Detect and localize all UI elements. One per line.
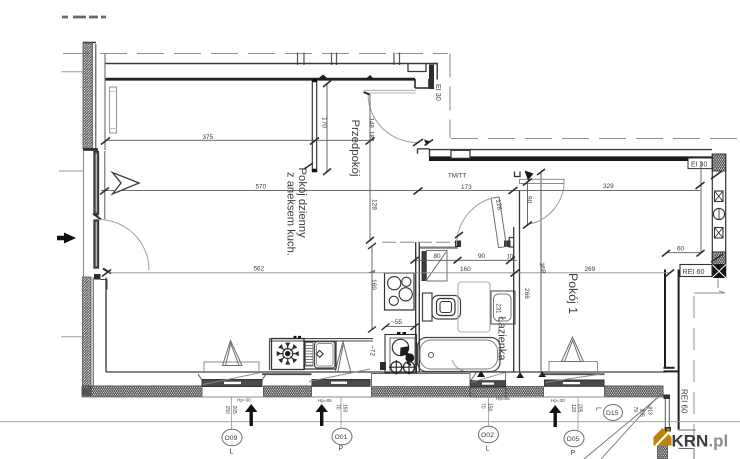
baseline under plan	[0, 421, 740, 423]
vanity / shower unit	[458, 282, 490, 332]
north-east outer wall	[418, 140, 713, 176]
hall / living room partition wall	[304, 80, 317, 172]
svg-text:375: 375	[203, 134, 214, 141]
svg-text:~55: ~55	[391, 319, 402, 326]
door stop symbol (u)	[515, 172, 521, 177]
washbasin	[491, 291, 515, 324]
svg-text:60: 60	[677, 246, 685, 253]
svg-text:813: 813	[647, 407, 653, 416]
dim chain y=190.5 (570 / 173 / 329)	[100, 182, 705, 195]
wall pier at bathroom corner	[422, 251, 427, 281]
wall line left of room 1	[540, 172, 542, 376]
black tick at door hinge	[364, 92, 370, 95]
svg-text:Hp=30: Hp=30	[237, 398, 251, 403]
svg-text:Łazienka: Łazienka	[496, 317, 508, 362]
wall junction black triangles on top wall	[317, 75, 376, 81]
black tick marks on south wall inner line	[477, 371, 546, 379]
cooktop (4 burners)	[385, 273, 415, 310]
window O02 schedule labels	[479, 396, 511, 453]
toilet	[423, 293, 461, 321]
bathroom door swing arc	[456, 198, 494, 247]
window O01 (kitchen window)	[309, 369, 370, 386]
left wall window section (below hatched part)	[84, 151, 105, 277]
svg-text:70: 70	[335, 404, 341, 410]
svg-text:L: L	[486, 446, 490, 453]
service shaft column (right edge)	[711, 154, 726, 278]
svg-text:~72: ~72	[369, 345, 376, 356]
grey dim chain y=272.8 (562 / 160 / 269)	[102, 265, 674, 276]
svg-text:70: 70	[480, 403, 486, 409]
svg-text:Hp=85: Hp=85	[318, 398, 332, 403]
left balcony door	[93, 214, 111, 290]
open arrow (entrance marker, living room)	[113, 173, 140, 195]
REI 60 label box (top of room 1 east wall)	[680, 265, 712, 277]
leader curve from bathtub to window O02	[452, 360, 470, 373]
left side reference ticks	[59, 72, 84, 337]
bathroom door arc tick	[455, 232, 463, 238]
svg-text:269: 269	[585, 266, 596, 273]
svg-text:EI 30: EI 30	[691, 162, 707, 169]
south wall inner face line	[106, 371, 666, 373]
svg-text:173: 173	[461, 184, 472, 191]
vertical dim x=372 (169, kitchen)	[368, 243, 377, 333]
radiator end marks	[110, 92, 117, 129]
black fire damper square	[712, 265, 726, 279]
svg-text:148: 148	[368, 118, 375, 129]
svg-text:205: 205	[231, 406, 237, 415]
left structural wall (hatched, lower)	[83, 277, 107, 397]
svg-text:80: 80	[434, 253, 442, 260]
room 1 door swing arc	[528, 184, 565, 225]
dim line y=260 (80 / 90 / 10)	[411, 253, 518, 264]
kitchen sink with drainer	[305, 342, 337, 370]
tick at wall x541 junction	[537, 169, 545, 175]
vertical dim x=370 (148 / 187)	[366, 94, 378, 244]
wall-joint tick pairs on dashed line	[298, 53, 400, 66]
dashed outline of storey above (top)	[63, 54, 740, 139]
svg-text:KRN.pl: KRN.pl	[672, 432, 729, 451]
window O01 schedule labels	[316, 397, 353, 453]
window O09 schedule labels	[222, 397, 257, 456]
entrance door arc tick	[413, 139, 423, 146]
hall east inner face line	[700, 161, 702, 253]
svg-text:P: P	[571, 450, 576, 457]
left balcony door swing arc	[99, 220, 150, 271]
svg-text:570: 570	[256, 184, 267, 191]
svg-text:REI 60: REI 60	[680, 389, 689, 414]
svg-text:329: 329	[603, 183, 614, 190]
left structural wall (hatched, upper)	[83, 43, 105, 151]
black arrow at room 1 door hinge	[525, 171, 534, 181]
svg-text:266: 266	[523, 288, 530, 299]
svg-text:O05: O05	[567, 436, 580, 443]
leader diagonals to balcony door D15	[584, 393, 664, 459]
svg-text:O01: O01	[335, 434, 348, 441]
svg-text:150: 150	[224, 406, 230, 415]
svg-text:150: 150	[342, 404, 348, 413]
svg-text:Hp=85: Hp=85	[496, 396, 510, 401]
dashed projection line (east side)	[693, 296, 695, 448]
entrance door opening (top)	[364, 90, 416, 93]
svg-text:P: P	[339, 446, 344, 453]
dim chain y=140 (375)	[101, 134, 375, 145]
small ledge lines east	[694, 291, 725, 293]
room 1 east outer wall	[664, 270, 679, 430]
entrance direction arrow (solid black, left)	[57, 233, 76, 244]
south wall hatched band segments	[82, 386, 663, 397]
bathroom door jambs	[455, 241, 461, 248]
window O05 opening triangle	[562, 337, 584, 362]
room 1 door leaf (open against wall)	[520, 179, 565, 183]
window O05 schedule labels	[549, 397, 584, 457]
svg-text:169: 169	[370, 279, 377, 290]
svg-text:90: 90	[478, 253, 486, 260]
title fragment top-left (cut-off text)	[62, 16, 106, 19]
kitchen counter front edge	[270, 339, 374, 370]
svg-text:562: 562	[254, 265, 265, 272]
svg-text:90: 90	[526, 196, 533, 204]
bathroom right wall	[509, 190, 519, 372]
dim 60 (wall offset)	[662, 246, 705, 257]
KRN.pl watermark	[654, 428, 729, 451]
bathtub	[418, 338, 501, 372]
room 1 door opening dimension line (90)	[527, 181, 529, 225]
svg-text:Pokój dzienny: Pokój dzienny	[296, 168, 308, 239]
kitchen annex top boundary line	[382, 241, 458, 243]
svg-text:128: 128	[494, 199, 503, 211]
balcony door D15 schedule labels	[595, 405, 653, 421]
svg-text:150: 150	[487, 403, 493, 412]
bathroom door leaf (open)	[491, 197, 506, 248]
svg-text:205: 205	[639, 409, 645, 418]
svg-text:128: 128	[371, 199, 378, 210]
svg-text:L: L	[230, 449, 234, 456]
bathroom top wall edge	[420, 247, 458, 249]
svg-text:Pokój 1: Pokój 1	[566, 273, 580, 314]
svg-text:O09: O09	[225, 435, 238, 442]
radiator by left wall	[110, 87, 117, 133]
balcony door D15 (in east wall)	[658, 395, 672, 459]
dim ~55 (cooktop)	[382, 319, 419, 330]
svg-text:L: L	[595, 407, 602, 411]
EI 30 label box (right end of NE wall)	[688, 158, 712, 169]
window O05 (room 1 window)	[545, 362, 605, 387]
svg-text:205: 205	[577, 404, 583, 413]
svg-text:EI 30: EI 30	[434, 84, 443, 101]
entrance door swing arc	[368, 94, 417, 143]
washing machine with taps	[380, 334, 417, 375]
svg-text:D15: D15	[606, 410, 619, 417]
svg-text:O02: O02	[481, 432, 494, 439]
svg-text:10: 10	[507, 254, 514, 260]
window O02 (bathroom, splayed reveal)	[471, 372, 506, 387]
svg-text:z aneksem kuch.: z aneksem kuch.	[285, 172, 297, 256]
window O01 opening triangle	[335, 342, 351, 373]
top wall (north wall of living room / hall)	[105, 64, 437, 90]
window O09 (bottom left)	[198, 362, 266, 387]
wall band outline between windows B and C	[372, 374, 471, 387]
svg-text:Hp=30: Hp=30	[551, 398, 565, 403]
svg-text:79: 79	[632, 407, 638, 413]
sill hatch under window O02	[471, 388, 506, 398]
svg-text:187: 187	[368, 131, 375, 142]
svg-text:231: 231	[495, 304, 501, 315]
south wall outer sill line	[82, 396, 666, 398]
svg-text:120: 120	[570, 404, 576, 413]
TM/TT niche in wall	[451, 150, 470, 158]
svg-text:REI 60: REI 60	[683, 267, 705, 276]
kitchen / hall partition wall	[416, 242, 420, 372]
vertical dim x=327 (170)	[321, 81, 332, 176]
tick at left end of NE wall	[425, 140, 434, 146]
window O09 opening triangle	[223, 341, 243, 366]
svg-text:170: 170	[321, 117, 328, 128]
svg-text:160: 160	[460, 266, 471, 273]
svg-text:Przedpokój: Przedpokój	[349, 120, 361, 177]
svg-text:TM/TT: TM/TT	[448, 173, 466, 180]
fridge (square with fan symbol)	[272, 337, 305, 369]
tall cabinet with diagonal (by bathroom door)	[427, 251, 448, 282]
